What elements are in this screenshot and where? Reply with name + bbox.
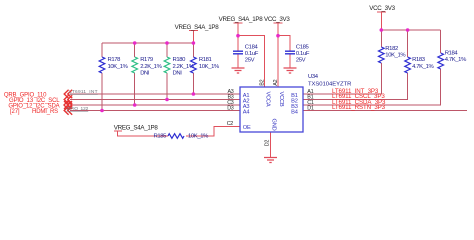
wire R180 legs [166, 43, 168, 100]
svg-text:C2: C2 [227, 121, 234, 127]
power symbol VCC_3V3 (top-right) [377, 11, 386, 13]
svg-text:OE: OE [243, 125, 251, 131]
resistor R183 [405, 57, 411, 73]
power symbol VREG_S4A_1P8 (bottom, R185) [114, 130, 122, 132]
svg-text:R184: R184 [445, 50, 459, 56]
svg-text:4.7K_1%: 4.7K_1% [412, 64, 434, 70]
off-page connector row 3 (diamond) [64, 101, 72, 109]
resistor R184 [438, 53, 444, 69]
wire R182 legs [380, 30, 382, 94]
svg-text:D3: D3 [227, 105, 234, 111]
svg-text:D1: D1 [307, 105, 314, 111]
svg-text:D2: D2 [264, 140, 270, 147]
svg-text:R179: R179 [140, 57, 153, 63]
junction on rail (R179) [133, 41, 137, 45]
svg-text:2.2K_1%: 2.2K_1% [140, 64, 162, 70]
wire VCC_3V3 rail top-right [381, 29, 440, 31]
svg-text:10K_1%: 10K_1% [108, 64, 129, 70]
wire QRB_GPIO_110 net (row 1 left) [70, 93, 240, 95]
svg-text:DNI: DNI [173, 71, 183, 77]
svg-text:25V: 25V [245, 57, 255, 63]
IC U34 TXS0104EYZTR [240, 87, 303, 132]
wire LT6911_INT_3P3 (row 1 right) [303, 93, 381, 95]
ground (U34 GND) [264, 158, 277, 163]
wire VCC_3V3 to VCCB pin and C185 [278, 23, 290, 87]
wire VCC_3V3 power stub [380, 12, 382, 30]
off-page connector row 2 [64, 95, 72, 103]
junction VCC to C185 [276, 34, 280, 38]
power symbol VREG_S4A_1P8 (above C184) [234, 22, 243, 24]
wire R178 legs [101, 43, 103, 111]
resistor R182 [378, 47, 384, 63]
resistor R178 [99, 57, 105, 73]
svg-text:4.7K_1%: 4.7K_1% [445, 57, 467, 63]
junction VREG to C184 [236, 34, 240, 38]
svg-text:R183: R183 [412, 57, 426, 63]
svg-text:VCCB: VCCB [278, 92, 284, 107]
wire R183 legs [407, 30, 409, 100]
svg-text:B4: B4 [291, 109, 298, 115]
junction R181 to INT [192, 92, 196, 96]
wire LT6911_RSTN_3P3 (row 4 right) [303, 110, 467, 112]
power symbol VREG_S4A_1P8 (top-left) [189, 30, 198, 32]
wire C184 to ground [237, 54, 239, 67]
svg-text:C184: C184 [245, 44, 259, 50]
off-page connector row 1 [64, 90, 72, 98]
svg-text:VCCA: VCCA [265, 92, 271, 107]
wire VREG_S4A_1P8 rail top-left [102, 42, 193, 44]
svg-text:R181: R181 [199, 57, 212, 63]
svg-text:GND: GND [271, 119, 277, 131]
wire GPIO_13_I2C_SCL net (row 2 left) [70, 99, 240, 101]
wire R184 legs [440, 30, 442, 105]
svg-text:VREG_S4A_1P8: VREG_S4A_1P8 [219, 16, 264, 23]
svg-text:R180: R180 [173, 57, 187, 63]
junction on rail (R181/stub) [192, 41, 196, 45]
ground (C184) [232, 68, 245, 73]
svg-text:0.1uF: 0.1uF [245, 51, 259, 57]
svg-text:TXS0104EYZTR: TXS0104EYZTR [308, 82, 351, 88]
svg-text:A4: A4 [243, 109, 250, 115]
svg-text:R185: R185 [154, 133, 168, 139]
junction R180 to SCL [165, 98, 169, 102]
svg-text:LT6911_RSTN_3P3: LT6911_RSTN_3P3 [332, 104, 386, 111]
wire VREG_S4A_1P8 to VCCA pin and C184 [238, 23, 265, 87]
junction VCC rail R183 [406, 28, 410, 32]
wire GPIO_12_I2C_SDA net (row 3 left) [70, 104, 240, 106]
svg-text:VCC_3V3: VCC_3V3 [264, 16, 290, 23]
svg-text:10K_1%: 10K_1% [188, 133, 209, 139]
ground (C185) [284, 68, 297, 73]
off-page connector row 4 [64, 106, 72, 114]
svg-text:0.1uF: 0.1uF [296, 51, 310, 57]
svg-text:R182: R182 [385, 46, 398, 52]
resistor R179 (DNI) [132, 57, 138, 73]
wire VREG_S4A_1P8 through R185 to OE pin [117, 126, 240, 136]
svg-text:VREG_S4A_1P8: VREG_S4A_1P8 [114, 125, 159, 132]
svg-text:A2: A2 [273, 79, 279, 85]
wire R179 legs [134, 43, 136, 105]
wire R181 legs [192, 43, 194, 94]
wire LT6911_CSDA_3P3 (row 3 right) [303, 104, 441, 106]
svg-text:10K_1%: 10K_1% [385, 53, 406, 59]
wire C185 to ground [289, 54, 291, 67]
wire HDMI_RS net (row 4 left) [70, 110, 240, 112]
capacitor C185 [285, 51, 295, 54]
svg-text:R178: R178 [108, 57, 122, 63]
svg-text:HDMI_RS: HDMI_RS [32, 109, 58, 115]
wire GND pin to ground [270, 132, 272, 157]
junction VCC rail R182 [380, 28, 384, 32]
svg-text:DNI: DNI [140, 71, 150, 77]
junction R179 to SDA [133, 103, 137, 107]
svg-text:C185: C185 [296, 44, 310, 50]
resistor R181 [191, 57, 197, 73]
wire VREG_S4A_1P8 stub to rail [192, 31, 194, 43]
resistor R180 (DNI) [164, 57, 170, 73]
svg-text:B2: B2 [259, 79, 265, 85]
power symbol VCC_3V3 (above C185) [274, 22, 283, 24]
svg-text:GPIO_122: GPIO_122 [67, 106, 89, 112]
capacitor C184 [233, 51, 243, 54]
svg-text:U34: U34 [308, 74, 319, 80]
svg-text:VREG_S4A_1P8: VREG_S4A_1P8 [175, 24, 220, 31]
svg-text:VCC_3V3: VCC_3V3 [369, 5, 395, 12]
junction on rail (R180) [165, 41, 169, 45]
svg-text:25V: 25V [296, 57, 306, 63]
resistor R185 (horizontal) [168, 134, 184, 139]
svg-text:LT6911_INT: LT6911_INT [69, 89, 97, 95]
svg-text:[27]: [27] [10, 109, 20, 115]
junction R178 to HDMI_RS [100, 109, 104, 113]
svg-text:10K_1%: 10K_1% [199, 64, 220, 70]
wire LT6911_CSCL_3P3 (row 2 right) [303, 99, 408, 101]
